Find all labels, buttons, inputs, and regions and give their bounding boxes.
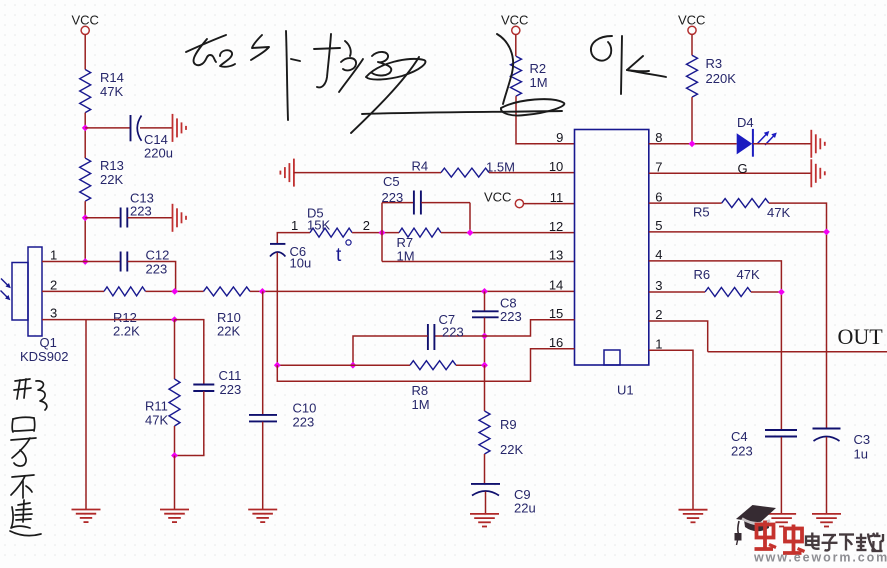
wire R12 to R10 bbox=[146, 290, 204, 292]
svg-text:47K: 47K bbox=[737, 267, 760, 282]
wire IC pin4 row bbox=[649, 261, 782, 430]
svg-text:G: G bbox=[738, 161, 748, 176]
node junction C6/R8/pin16 bbox=[274, 362, 281, 369]
svg-text:47K: 47K bbox=[767, 205, 790, 220]
wire node to C14 bbox=[85, 127, 130, 129]
resistor R9 22K bbox=[479, 411, 523, 457]
resistor R5 47K bbox=[693, 199, 790, 220]
handwritten note "K" bar bbox=[621, 36, 622, 94]
svg-text:R11: R11 bbox=[145, 399, 168, 414]
svg-text:22K: 22K bbox=[217, 324, 240, 339]
svg-text:VCC: VCC bbox=[678, 13, 705, 28]
node junction 2 bbox=[379, 229, 386, 236]
wire R9 to C9 bbox=[484, 454, 486, 484]
wire R2 to IC pin9 bbox=[516, 96, 575, 144]
svg-text:www.eeworm.com: www.eeworm.com bbox=[753, 551, 887, 564]
capacitor C6 10u (electrolytic) bbox=[270, 244, 311, 271]
handwritten note "K" arms bbox=[627, 56, 666, 77]
ground (right of LED) bbox=[811, 130, 825, 158]
power symbol VCC (right) bbox=[678, 13, 705, 35]
svg-text:C5: C5 bbox=[383, 174, 400, 189]
svg-text:1u: 1u bbox=[854, 447, 868, 462]
wire LED to ground bbox=[753, 143, 811, 145]
handwritten vertical note char 4 bbox=[11, 475, 34, 498]
node junction R11 bottom bbox=[171, 452, 178, 459]
node junction pin5/C3 bbox=[823, 229, 830, 236]
svg-text:14: 14 bbox=[549, 278, 563, 293]
svg-text:11: 11 bbox=[550, 190, 564, 205]
handwritten note stroke (vertical bar) bbox=[286, 31, 300, 120]
svg-text:16: 16 bbox=[549, 335, 563, 350]
svg-text:223: 223 bbox=[220, 382, 242, 397]
wire OUT row bbox=[708, 324, 887, 352]
wire C14 to ground bbox=[140, 127, 173, 129]
resistor R2 1M bbox=[511, 56, 548, 96]
node junction R10/C10 bbox=[259, 288, 266, 295]
wire IC pin6 to R5 bbox=[649, 202, 722, 204]
capacitor C4 223 bbox=[731, 429, 797, 459]
wire R4 to IC pin10 bbox=[489, 172, 575, 174]
handwritten note stroke (char 4) bbox=[372, 52, 391, 75]
wire VCC to IC pin11 bbox=[524, 203, 575, 205]
wire IC pin3 to R6 bbox=[649, 291, 705, 293]
wire IC pin1 to ground bbox=[649, 350, 693, 509]
wire C12 to pin2 node bbox=[128, 262, 176, 292]
handwritten flourish underline bbox=[362, 111, 562, 114]
wire Q1 pin2 to R12 bbox=[42, 290, 104, 292]
svg-text:22u: 22u bbox=[514, 501, 536, 516]
svg-text:6: 6 bbox=[655, 189, 662, 204]
capacitor C13 223 bbox=[121, 191, 154, 228]
svg-text:OUT: OUT bbox=[838, 324, 884, 349]
wire IC pin16 loop bbox=[277, 349, 574, 381]
svg-text:3: 3 bbox=[655, 278, 662, 293]
svg-text:2: 2 bbox=[655, 307, 662, 322]
wire C9 to ground bbox=[485, 492, 487, 514]
wire IC pin2 to OUT row bbox=[649, 321, 708, 352]
wire to R11 bbox=[174, 320, 176, 379]
node junction pin14/C8 bbox=[481, 288, 488, 295]
wire IC pin5 row bbox=[649, 231, 827, 233]
LED D4 bbox=[737, 115, 777, 157]
svg-text:47K: 47K bbox=[145, 413, 168, 428]
svg-text:7: 7 bbox=[655, 160, 662, 175]
wire node to C13 bbox=[85, 217, 120, 219]
watermark red characters bbox=[755, 521, 805, 554]
resistor R7 1M bbox=[397, 228, 442, 263]
svg-text:D4: D4 bbox=[737, 115, 754, 130]
svg-text:C3: C3 bbox=[854, 432, 871, 447]
node junction C8/C7/pin15 bbox=[481, 333, 488, 340]
resistor R12 2.2K bbox=[104, 287, 146, 339]
handwritten stroke (S-curve near VCC) bbox=[497, 34, 564, 116]
svg-text:R4: R4 bbox=[412, 159, 429, 174]
svg-text:47K: 47K bbox=[100, 84, 123, 99]
wire R13 down to pin1 node bbox=[84, 201, 86, 261]
resistor R3 220K bbox=[687, 55, 737, 97]
svg-text:223: 223 bbox=[146, 262, 168, 277]
wire pin14 row to IC bbox=[250, 290, 575, 292]
svg-text:R14: R14 bbox=[100, 70, 124, 85]
wire R8 to node bbox=[456, 364, 485, 366]
ground (below Q1) bbox=[72, 510, 101, 523]
node junction R6/C4 bbox=[778, 289, 785, 296]
svg-text:R5: R5 bbox=[693, 205, 710, 220]
svg-text:VCC: VCC bbox=[72, 13, 99, 28]
capacitor C5 223 bbox=[382, 174, 421, 215]
svg-text:1: 1 bbox=[291, 218, 298, 233]
ground (right of G row) bbox=[811, 159, 825, 187]
svg-text:5: 5 bbox=[655, 218, 662, 233]
svg-text:4: 4 bbox=[655, 247, 662, 262]
wire R8 row left bbox=[277, 364, 410, 366]
wire node2 vertical bbox=[381, 203, 383, 262]
svg-text:9: 9 bbox=[556, 130, 563, 145]
wire R14 to R13 bbox=[84, 113, 86, 159]
wire R3 to pin8 row bbox=[691, 97, 693, 144]
handwritten note stroke (char 3) bbox=[314, 34, 363, 92]
handwritten vertical note char 3 bbox=[11, 438, 36, 466]
node junction R8/R9 bbox=[481, 362, 488, 369]
wire IC pin8 to LED bbox=[649, 143, 737, 145]
svg-text:220K: 220K bbox=[706, 71, 737, 86]
ground (below C10) bbox=[248, 510, 277, 523]
svg-text:C11: C11 bbox=[219, 368, 242, 383]
svg-text:VCC: VCC bbox=[501, 13, 528, 28]
ground (left of R4) bbox=[280, 159, 294, 187]
svg-text:VCC: VCC bbox=[484, 190, 511, 205]
handwritten note "0" bbox=[591, 36, 612, 61]
wire pin3 down to ground bbox=[85, 320, 87, 510]
svg-text:1M: 1M bbox=[412, 397, 430, 412]
handwritten note stroke (top-left char 1) bbox=[186, 35, 235, 67]
node junction Q1 pin1 bbox=[82, 258, 89, 265]
wire Q1 pin3 row bbox=[42, 319, 175, 321]
svg-text:223: 223 bbox=[731, 444, 753, 459]
node junction at R14/C14 bbox=[82, 125, 89, 132]
svg-text:10: 10 bbox=[549, 159, 563, 174]
wire VCC to R2 bbox=[515, 35, 517, 57]
ground (right of C14) bbox=[173, 114, 187, 142]
wire to C5 bbox=[382, 202, 414, 204]
resistor R8 1M bbox=[410, 361, 456, 412]
watermark graduation cap logo bbox=[735, 505, 777, 545]
wire C4 to ground bbox=[780, 437, 782, 514]
svg-text:1: 1 bbox=[655, 337, 662, 352]
transistor Q1 KDS902 (IR receiver) bbox=[1, 247, 69, 364]
handwritten flourish loop bbox=[366, 59, 425, 80]
power symbol VCC (mid) bbox=[501, 13, 528, 35]
svg-text:12: 12 bbox=[549, 219, 563, 234]
svg-text:C12: C12 bbox=[146, 248, 170, 263]
node junction R11 top bbox=[171, 316, 178, 323]
power symbol VCC (pin11) bbox=[484, 190, 524, 208]
wire C7 right bbox=[435, 335, 485, 337]
resistor R13 22K bbox=[80, 158, 124, 201]
wire C8 down to R8 row bbox=[484, 318, 486, 366]
wire C11 branch top bbox=[175, 320, 204, 384]
node junction at C13 bbox=[82, 214, 89, 221]
svg-text:3: 3 bbox=[50, 306, 57, 321]
wire VCC to R14 bbox=[84, 35, 86, 70]
wire C6 down to R8 row (crosses pin14 row) bbox=[276, 253, 278, 366]
wire C10 to ground bbox=[262, 422, 264, 510]
wire R11 to bottom node bbox=[174, 426, 176, 456]
svg-text:2: 2 bbox=[50, 278, 57, 293]
ground (right of C13) bbox=[173, 204, 187, 232]
ground (below R11) bbox=[160, 510, 189, 523]
ground (below C4) bbox=[767, 514, 796, 527]
svg-text:2.2K: 2.2K bbox=[113, 324, 140, 339]
svg-text:223: 223 bbox=[382, 190, 404, 205]
svg-text:15: 15 bbox=[549, 306, 563, 321]
node junction C7/R8 bbox=[350, 362, 357, 369]
svg-text:8: 8 bbox=[655, 130, 662, 145]
wire IC pin15 to node bbox=[485, 320, 575, 336]
wire Q1 pin1 to C12 bbox=[42, 261, 120, 263]
wire R7 to IC pin12 bbox=[441, 232, 575, 234]
svg-text:22K: 22K bbox=[100, 172, 123, 187]
svg-text:223: 223 bbox=[442, 325, 464, 340]
node junction R7 right bbox=[467, 229, 474, 236]
svg-text:R3: R3 bbox=[706, 56, 723, 71]
wire ground to R4 bbox=[294, 172, 441, 174]
wire C11 branch bottom bbox=[175, 391, 204, 455]
wire C6 top to D5 bbox=[277, 233, 310, 244]
wire C5 to right vertical bbox=[421, 202, 470, 204]
capacitor C8 223 bbox=[472, 296, 522, 325]
svg-text:U1: U1 bbox=[617, 383, 634, 398]
svg-text:R6: R6 bbox=[694, 267, 711, 282]
svg-text:223: 223 bbox=[293, 415, 315, 430]
ground (below C9) bbox=[470, 514, 499, 527]
resistor R10 22K bbox=[204, 287, 251, 339]
capacitor C14 220u (electrolytic) bbox=[131, 115, 173, 161]
capacitor C11 223 bbox=[193, 368, 241, 397]
wire R6 to C4 column bbox=[751, 291, 781, 293]
power symbol VCC (left) bbox=[72, 13, 99, 35]
handwritten note stroke (char 2) bbox=[251, 35, 269, 60]
node junction R12/R10 bbox=[171, 288, 178, 295]
svg-text:13: 13 bbox=[549, 248, 563, 263]
svg-text:2: 2 bbox=[363, 218, 370, 233]
capacitor C3 1u (electrolytic) bbox=[813, 429, 871, 462]
thermistor D5 15K bbox=[291, 206, 370, 267]
handwritten flourish diagonal bbox=[351, 57, 419, 133]
wire R5 to C3 column bbox=[769, 203, 827, 428]
svg-text:1M: 1M bbox=[530, 75, 548, 90]
wire node to C10 bbox=[262, 291, 264, 414]
capacitor C9 22u (electrolytic) bbox=[471, 484, 536, 516]
svg-text:15K: 15K bbox=[307, 218, 330, 233]
svg-text:Q1: Q1 bbox=[40, 335, 57, 350]
wire C13 to ground bbox=[128, 217, 173, 219]
ground (below pin1) bbox=[679, 510, 708, 523]
svg-text:R9: R9 bbox=[500, 417, 517, 432]
wire VCC to R3 bbox=[691, 35, 693, 56]
wire pin14 node to C8 bbox=[484, 291, 486, 311]
wire C3 to ground bbox=[826, 437, 828, 514]
svg-text:223: 223 bbox=[500, 309, 522, 324]
resistor R11 47K bbox=[145, 379, 180, 428]
svg-text:1: 1 bbox=[50, 248, 57, 263]
op-amp U1 (16-pin IC) bbox=[549, 130, 663, 398]
wire node to R9 bbox=[484, 365, 486, 411]
handwritten vertical note char 5 bbox=[10, 500, 41, 536]
wire R11 node to ground bbox=[174, 456, 176, 510]
ground (below C3) bbox=[812, 514, 841, 527]
wire C7 left down to R8 row bbox=[353, 336, 428, 365]
svg-text:KDS902: KDS902 bbox=[20, 349, 68, 364]
resistor R4 1.5M bbox=[412, 159, 515, 178]
svg-text:C10: C10 bbox=[293, 401, 317, 416]
capacitor C12 223 bbox=[121, 248, 170, 277]
svg-text:C4: C4 bbox=[731, 429, 748, 444]
node junction R3/pin8 bbox=[689, 140, 696, 147]
wire pin13 row bbox=[382, 261, 575, 263]
svg-text:10u: 10u bbox=[290, 256, 312, 271]
svg-text:R2: R2 bbox=[530, 61, 547, 76]
svg-text:R8: R8 bbox=[412, 383, 429, 398]
handwritten vertical note char 1 bbox=[14, 379, 47, 410]
wire C5/R7 right vertical bbox=[469, 203, 471, 233]
svg-text:220u: 220u bbox=[144, 146, 173, 161]
capacitor C10 223 bbox=[249, 401, 316, 430]
resistor R6 47K bbox=[694, 267, 760, 297]
wire IC pin7 G row bbox=[649, 161, 812, 176]
watermark dark text 电子下载站 bbox=[806, 533, 884, 552]
capacitor C7 223 bbox=[428, 312, 464, 350]
handwritten vertical note char 2 bbox=[12, 417, 35, 432]
svg-text:223: 223 bbox=[130, 204, 152, 219]
svg-text:t: t bbox=[336, 245, 342, 266]
resistor R14 47K bbox=[80, 70, 124, 113]
svg-text:R13: R13 bbox=[100, 158, 124, 173]
wire D5 to node 2 bbox=[352, 232, 399, 234]
svg-text:22K: 22K bbox=[500, 442, 523, 457]
